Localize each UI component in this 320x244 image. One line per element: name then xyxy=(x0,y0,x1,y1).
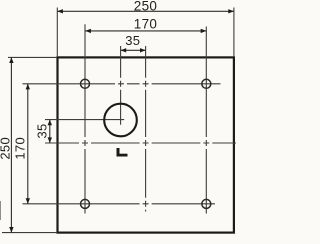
svg-text:35: 35 xyxy=(35,123,50,138)
center line: large hole horizontal xyxy=(45,119,124,121)
hole bottom-left xyxy=(81,199,90,208)
hole top-right xyxy=(202,79,211,88)
center line: bottom hole row xyxy=(23,203,216,205)
hole top-left xyxy=(81,79,90,88)
dimension 35 top xyxy=(121,33,146,53)
extension line top-left (plate left edge up) xyxy=(56,8,58,58)
center line: top hole row xyxy=(23,83,221,85)
label L xyxy=(117,148,128,157)
svg-text:35: 35 xyxy=(125,33,140,48)
dimension 170 left xyxy=(13,84,30,204)
center line: large hole vertical xyxy=(120,46,122,125)
svg-text:170: 170 xyxy=(13,137,28,160)
extension line left-bottom (plate bottom edge left) xyxy=(2,232,57,234)
center line: plate vertical centerline xyxy=(145,46,147,212)
center line: plate horizontal centerline xyxy=(45,142,236,144)
plate outline 250x250 xyxy=(58,57,234,232)
dimension 250 top xyxy=(57,0,234,14)
large hole xyxy=(104,104,137,137)
dimension 250 left xyxy=(0,57,14,232)
center line: left hole column xyxy=(84,24,86,213)
extension line left-top (plate top edge left) xyxy=(8,56,57,58)
dimension 170 top xyxy=(85,16,206,33)
center line: right hole column xyxy=(205,27,207,214)
edge artifact left xyxy=(0,201,1,220)
hole bottom-right xyxy=(202,199,211,208)
dimension 35 left xyxy=(35,120,53,143)
extension line top-right (plate right edge up) xyxy=(233,8,235,58)
svg-text:170: 170 xyxy=(134,16,157,31)
svg-text:250: 250 xyxy=(0,137,12,160)
svg-text:250: 250 xyxy=(134,0,157,13)
